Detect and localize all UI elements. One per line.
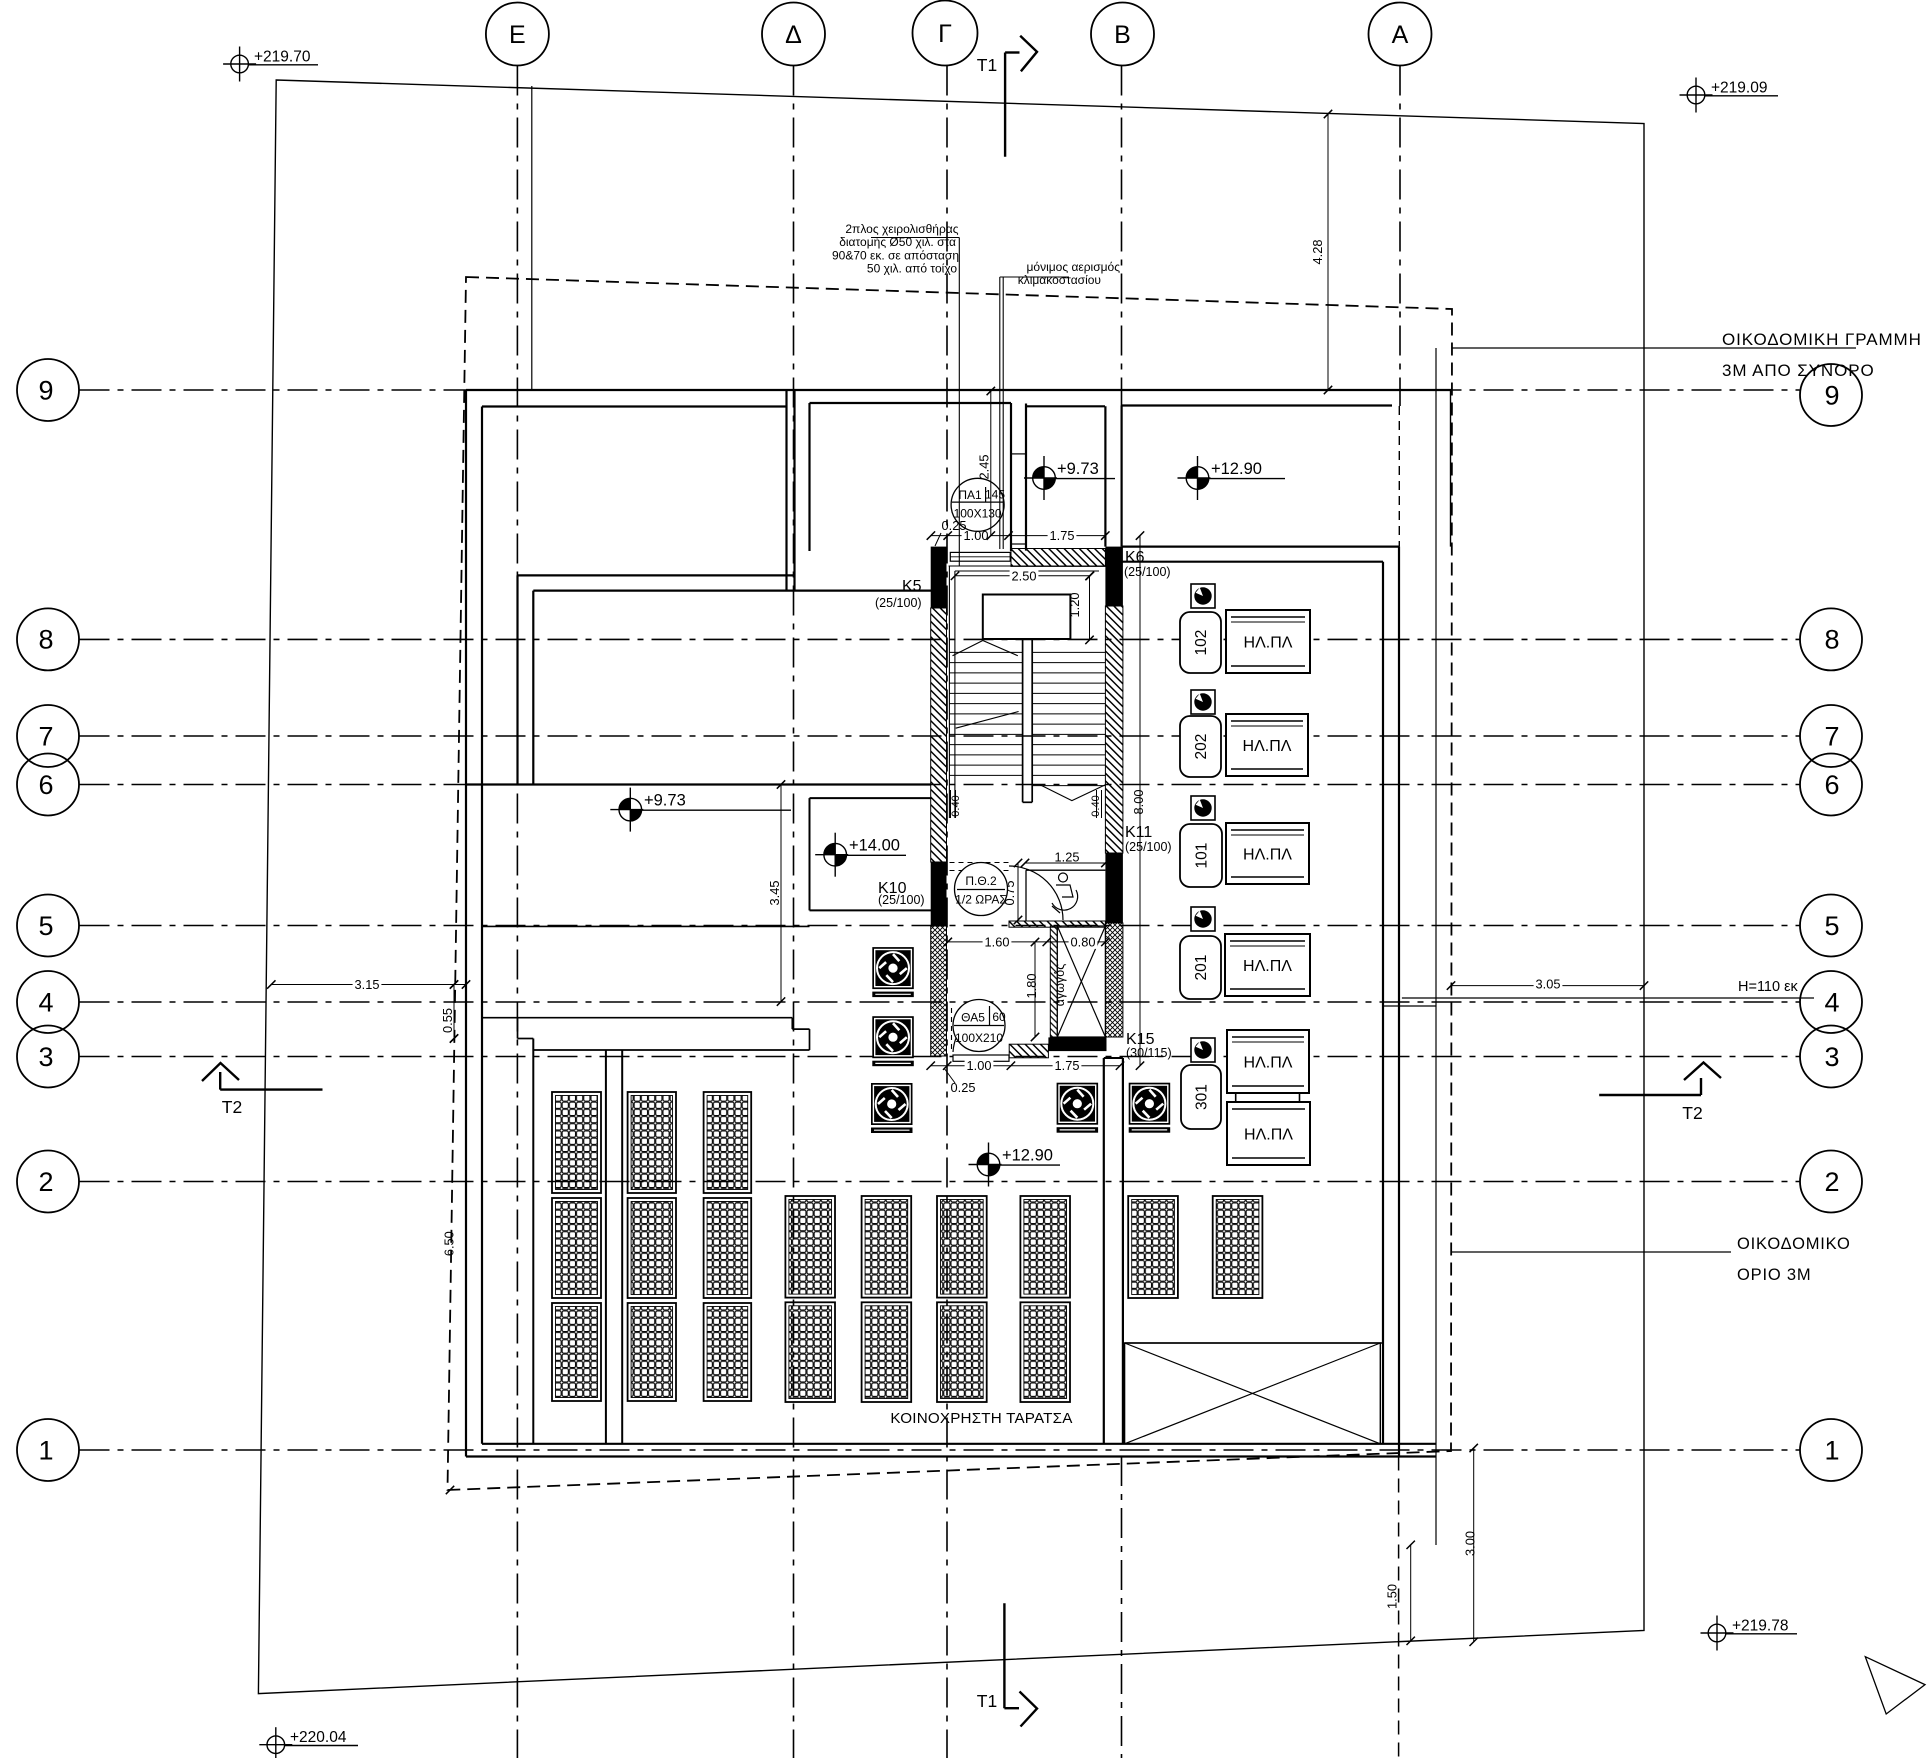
exhaust fan F1	[872, 947, 914, 997]
grid row 5	[80, 925, 1800, 927]
wall room B top line	[533, 589, 931, 591]
room A inner west	[808, 403, 810, 551]
roof solar panel P2	[628, 1092, 676, 1401]
svg-text:μόνιμος αερισμός: μόνιμος αερισμός	[1026, 260, 1120, 274]
section mark T1 bottom	[1004, 1603, 1037, 1726]
svg-text:3.15: 3.15	[355, 977, 380, 992]
dimension 3.45	[767, 780, 785, 1006]
svg-text:+219.09: +219.09	[1711, 80, 1767, 97]
svg-text:9: 9	[1824, 380, 1839, 410]
svg-text:Ε: Ε	[509, 21, 526, 49]
grid bubble 1 right	[1800, 1419, 1862, 1481]
exhaust fan F5	[1129, 1083, 1171, 1133]
step ledge west v	[517, 1018, 519, 1039]
spot level 12.90a	[1178, 456, 1286, 500]
leader building line	[1452, 347, 1856, 349]
stair bottom wall hatched	[1009, 1044, 1048, 1058]
dimension ticks 0.55/6.50 chain	[446, 980, 458, 1494]
exhaust fan F4	[1057, 1083, 1099, 1133]
boiler 201	[1180, 936, 1221, 999]
fence line east	[1435, 348, 1437, 1545]
door PA1 leaf	[950, 552, 1010, 561]
leader handrail note	[871, 238, 959, 567]
dimension 0.75	[1002, 859, 1022, 924]
svg-text:K11: K11	[1125, 824, 1152, 841]
wall north outer	[466, 389, 1452, 391]
terrace divider wall east line	[621, 1050, 623, 1444]
spot level 9.73a	[1024, 456, 1115, 500]
column K15 black bottom bar	[1048, 1037, 1106, 1051]
roof solar panel P7	[1020, 1196, 1070, 1402]
stair west wall hatched upper	[931, 608, 947, 862]
grid line A upper (vertical)	[1399, 66, 1401, 407]
svg-text:1.00: 1.00	[967, 1058, 992, 1073]
svg-text:101: 101	[1194, 843, 1211, 869]
grid bubble E	[486, 3, 549, 66]
roof edge right of B	[1450, 391, 1452, 547]
solar panel unit 201	[1225, 934, 1310, 996]
solar panel unit 102	[1226, 610, 1310, 673]
meter icon 202	[1191, 690, 1215, 714]
svg-text:ΟΙΚΟΔΟΜΙΚΟ: ΟΙΚΟΔΟΜΙΚΟ	[1737, 1235, 1851, 1253]
svg-text:100X210: 100X210	[955, 1031, 1003, 1045]
solar panel unit 301	[1227, 1030, 1309, 1093]
WC wall top	[1026, 869, 1105, 871]
wall row6	[466, 783, 931, 785]
svg-text:1.80: 1.80	[1024, 974, 1039, 999]
wall at Delta west face	[785, 391, 787, 591]
svg-text:0.40: 0.40	[950, 795, 962, 816]
svg-text:+12.90: +12.90	[1002, 1147, 1053, 1165]
dimension 3.05	[1447, 977, 1648, 992]
wall row5 segment	[482, 925, 810, 927]
dimension 8.00	[1131, 531, 1146, 1070]
roof solar panel P5	[862, 1196, 912, 1402]
wall west inner	[481, 407, 483, 1444]
terrace right wall west line	[1103, 1058, 1105, 1444]
svg-text:8.00: 8.00	[1131, 790, 1146, 815]
svg-text:3Μ ΑΠΟ ΣΥΝΟΡΟ: 3Μ ΑΠΟ ΣΥΝΟΡΟ	[1722, 361, 1875, 380]
svg-text:H=110 εκ: H=110 εκ	[1738, 979, 1799, 995]
grid bubble 6 left	[17, 754, 79, 816]
svg-text:Π.Θ.2: Π.Θ.2	[965, 874, 997, 888]
stair direction line	[956, 712, 1019, 729]
dimension 1.80	[1024, 938, 1039, 1041]
svg-text:1.20: 1.20	[1067, 593, 1082, 618]
note ventilation	[1018, 260, 1120, 287]
terrace divider wall west line	[605, 1050, 607, 1444]
leader H=110	[1402, 997, 1814, 999]
section mark T2 left	[202, 1063, 323, 1090]
dimension 3.15	[267, 977, 470, 992]
WC wall west	[1025, 870, 1027, 921]
svg-text:8: 8	[1824, 625, 1839, 655]
svg-text:ΗΛ.ΠΛ: ΗΛ.ΠΛ	[1243, 847, 1292, 864]
svg-text:100X130: 100X130	[954, 507, 1002, 521]
svg-text:90&70 εκ. σε απόσταση: 90&70 εκ. σε απόσταση	[832, 248, 959, 262]
short wall line east strip	[1383, 1005, 1436, 1007]
shaft wall hatched	[1050, 926, 1057, 1037]
grid bubble 1 left	[17, 1419, 79, 1481]
grid row 4	[80, 1001, 1800, 1003]
door PA1 leaf midline	[950, 556, 1010, 558]
svg-text:Δ: Δ	[785, 21, 802, 49]
svg-text:Α: Α	[1392, 21, 1409, 49]
grid line Delta (vertical)	[793, 66, 795, 1758]
stair top wall hatched band	[1011, 549, 1105, 567]
leader 0.25 bottom	[944, 1068, 955, 1083]
dimension 1.25	[1021, 850, 1110, 868]
svg-text:301: 301	[1194, 1084, 1211, 1110]
grid line B lower (vertical)	[1121, 1456, 1123, 1758]
stair east wall face upper	[1104, 406, 1106, 546]
column K5 (black)	[931, 547, 947, 608]
stairwell inner boundary top	[949, 566, 1104, 818]
room PA1 inner top	[1026, 405, 1105, 407]
step ledge h2	[792, 1028, 809, 1030]
column K11 (black)	[1105, 853, 1123, 923]
svg-text:ΗΛ.ΠΛ: ΗΛ.ΠΛ	[1244, 635, 1293, 652]
handrail end east pair	[1096, 790, 1098, 818]
svg-text:50 χιλ. από τοίχο: 50 χιλ. από τοίχο	[867, 262, 957, 276]
svg-text:102: 102	[1193, 630, 1210, 656]
svg-text:+12.90: +12.90	[1211, 460, 1262, 478]
leader 0.25 top	[935, 533, 941, 546]
svg-text:5: 5	[38, 911, 53, 941]
grid bubble 2 left	[17, 1151, 79, 1213]
window PA1 jamb west	[1010, 403, 1012, 551]
svg-text:(25/100): (25/100)	[1125, 840, 1172, 854]
svg-text:ΚΟΙΝΟΧΡΗΣΤΗ ΤΑΡΑΤΣΑ: ΚΟΙΝΟΧΡΗΣΤΗ ΤΑΡΑΤΣΑ	[890, 1410, 1073, 1427]
wall south outer	[466, 1455, 1436, 1457]
benchmark 219.78	[1701, 1616, 1798, 1651]
grid row 8	[80, 638, 1800, 640]
shaft box with X	[1057, 926, 1105, 1037]
svg-text:1.75: 1.75	[1050, 528, 1075, 543]
svg-text:K6: K6	[1125, 549, 1145, 566]
grid line E (vertical)	[516, 66, 518, 1758]
spot level 14.00	[815, 833, 906, 877]
svg-text:7: 7	[1824, 721, 1839, 751]
grid bubble 8 left	[17, 608, 79, 670]
spot level 12.90b	[969, 1143, 1061, 1187]
section mark T1 top	[1005, 36, 1037, 157]
wall east inner	[1382, 562, 1384, 1444]
dimension 3.00	[1463, 1444, 1478, 1646]
solar panel unit 301 lower	[1227, 1102, 1310, 1165]
stair void opening	[983, 595, 1071, 640]
svg-text:+219.78: +219.78	[1732, 1618, 1788, 1635]
exhaust fan F2	[872, 1016, 914, 1066]
grid bubble 7 left	[17, 705, 79, 767]
dimension 0.25/1.00/1.75 top	[927, 528, 1110, 543]
grid bubble 9 right	[1800, 364, 1862, 426]
svg-text:8: 8	[38, 625, 53, 655]
svg-text:1.60: 1.60	[985, 934, 1010, 949]
wheelchair symbol	[1052, 873, 1078, 913]
meter icon 201	[1191, 907, 1215, 931]
grid bubble Gamma	[913, 1, 978, 66]
setback building line 3m (dashed)	[448, 277, 1453, 1490]
spot level 9.73b	[610, 788, 791, 832]
svg-text:201: 201	[1193, 955, 1210, 981]
wall room A bottom upper line	[518, 574, 795, 576]
roof solar panel P8	[1128, 1196, 1178, 1298]
meter icon 301	[1191, 1038, 1215, 1062]
grid row 7	[80, 735, 1800, 737]
svg-text:3: 3	[1824, 1042, 1839, 1072]
grid line Gamma (vertical)	[946, 66, 948, 1758]
svg-text:0.40: 0.40	[1090, 795, 1102, 816]
dimension 1.60/0.80	[944, 934, 1110, 949]
WC bottom wall hatched strip	[1009, 921, 1105, 927]
svg-text:+14.00: +14.00	[849, 837, 900, 855]
grid row 6	[80, 784, 1800, 786]
svg-text:3: 3	[38, 1042, 53, 1072]
room K10 west	[809, 798, 811, 910]
svg-text:+9.73: +9.73	[1057, 460, 1099, 478]
svg-text:1.75: 1.75	[1055, 1058, 1080, 1073]
stair east wall hatched lower	[1105, 923, 1123, 1037]
svg-text:0.55: 0.55	[440, 1008, 455, 1033]
svg-text:1/2 ΩΡΑΣ: 1/2 ΩΡΑΣ	[955, 893, 1007, 907]
svg-text:K5: K5	[902, 578, 922, 595]
step ledge west h	[518, 1038, 534, 1040]
benchmark 219.70	[223, 47, 318, 82]
grid bubble 9 left	[17, 359, 79, 421]
svg-text:2.45: 2.45	[977, 455, 992, 480]
meter icon 102	[1191, 584, 1215, 608]
grid line B upper (vertical)	[1121, 66, 1123, 547]
wall south inner	[482, 1443, 1436, 1445]
svg-text:7: 7	[38, 721, 53, 751]
panel connector 301	[1236, 1093, 1300, 1102]
stair break line lower	[1040, 785, 1105, 801]
solar panel unit 101	[1226, 823, 1309, 884]
grid bubble 8 right	[1800, 608, 1862, 670]
svg-text:T1: T1	[977, 55, 997, 75]
room K10 top	[810, 797, 932, 799]
roof solar panel P9	[1213, 1196, 1263, 1298]
grid row 2	[80, 1181, 1800, 1183]
roof solar panel P1	[552, 1092, 601, 1401]
svg-text:T2: T2	[222, 1097, 242, 1117]
benchmark 219.09	[1680, 78, 1779, 113]
svg-text:3.45: 3.45	[767, 881, 782, 906]
leader building limit	[1452, 1251, 1731, 1253]
svg-text:2: 2	[38, 1167, 53, 1197]
boiler 101	[1180, 824, 1222, 887]
stair handrail west lines	[948, 566, 950, 818]
room K10 bottom	[810, 909, 932, 911]
wall stub east top inner	[1122, 561, 1383, 563]
svg-text:2πλος χειρολισθήρας: 2πλος χειρολισθήρας	[845, 222, 958, 236]
svg-text:6: 6	[38, 770, 53, 800]
svg-text:ΟΡΙΟ 3Μ: ΟΡΙΟ 3Μ	[1737, 1266, 1811, 1284]
grid row 9	[80, 389, 1800, 391]
svg-text:4.28: 4.28	[1310, 240, 1325, 265]
handrail end west pair	[951, 790, 1102, 818]
grid row 3	[80, 1056, 1800, 1058]
fire door tag circle	[955, 863, 1008, 916]
crossed box opening	[1125, 1343, 1383, 1444]
svg-text:4: 4	[1824, 987, 1839, 1017]
wall room B west	[532, 591, 534, 785]
svg-text:ΗΛ.ΠΛ: ΗΛ.ΠΛ	[1244, 1127, 1293, 1144]
grid row 1	[80, 1449, 1800, 1451]
solar panel unit 202	[1226, 714, 1308, 776]
dimension 2.50	[951, 568, 1094, 583]
svg-text:T2: T2	[1682, 1103, 1702, 1123]
svg-text:ΠΑ1: ΠΑ1	[958, 488, 982, 502]
svg-text:5: 5	[1824, 911, 1839, 941]
svg-text:6.50: 6.50	[442, 1231, 457, 1256]
svg-text:1.50: 1.50	[1385, 1584, 1400, 1609]
note handrail	[832, 222, 959, 276]
wall north inner right	[1122, 404, 1392, 406]
door THA5 swing arc	[953, 1009, 997, 1052]
svg-text:+9.73: +9.73	[644, 792, 686, 810]
svg-text:202: 202	[1193, 734, 1210, 760]
svg-text:3.00: 3.00	[1463, 1531, 1478, 1556]
grid bubble B	[1091, 3, 1154, 66]
svg-text:ΗΛ.ΠΛ: ΗΛ.ΠΛ	[1244, 1055, 1293, 1072]
svg-text:αγωγός: αγωγός	[1053, 964, 1067, 1006]
stair central divider	[1023, 639, 1033, 802]
wall at Delta east face	[793, 391, 795, 591]
grid line A dashed lower extension	[1398, 1457, 1400, 1758]
svg-text:3.05: 3.05	[1536, 977, 1561, 992]
svg-text:ΗΛ.ΠΛ: ΗΛ.ΠΛ	[1243, 738, 1292, 755]
door THA5 leaf	[953, 1055, 1009, 1061]
stair treads	[949, 652, 1105, 785]
grid bubble A	[1369, 3, 1432, 66]
svg-text:4: 4	[38, 987, 53, 1017]
svg-text:6: 6	[1824, 770, 1839, 800]
door THA5 dashed opening	[951, 1008, 953, 1052]
site boundary parcel	[258, 80, 1644, 1694]
wall north inner left	[482, 405, 787, 407]
svg-text:1.25: 1.25	[1055, 850, 1080, 865]
boiler 301	[1181, 1065, 1221, 1129]
stair east wall outer face upper	[1120, 406, 1122, 547]
svg-text:9: 9	[38, 375, 53, 405]
grid bubble 2 right	[1800, 1151, 1862, 1213]
svg-text:+220.04: +220.04	[290, 1729, 347, 1746]
svg-text:κλιμακοστασίου: κλιμακοστασίου	[1018, 273, 1101, 287]
wall at E below	[516, 575, 518, 784]
svg-text:2: 2	[1824, 1167, 1839, 1197]
grid bubble Delta	[762, 3, 825, 66]
roof solar panel P3	[704, 1092, 752, 1401]
boiler 202	[1180, 716, 1221, 777]
exhaust fan F3	[871, 1083, 913, 1133]
door tag THA5 circle	[953, 1000, 1006, 1052]
dimension 4.28	[1310, 110, 1332, 394]
svg-text:2.50: 2.50	[1012, 568, 1037, 583]
dimension 2.45	[977, 387, 996, 540]
terrace west edge	[532, 1039, 534, 1444]
grid bubble 4 left	[17, 971, 79, 1033]
fire door dashed opening	[950, 863, 1010, 871]
grid bubble 4 right	[1800, 971, 1862, 1033]
svg-text:Γ: Γ	[938, 20, 952, 48]
neighbour wall line along E	[531, 86, 533, 391]
step ledge line h1	[482, 1017, 792, 1019]
grid bubble 6 right	[1800, 754, 1862, 816]
step ledge v2	[809, 1029, 811, 1050]
section mark T2 right	[1599, 1063, 1721, 1096]
terrace top edge	[533, 1049, 809, 1051]
window PA1 sill marks	[1011, 453, 1026, 455]
roof solar panel P4	[785, 1196, 835, 1402]
dimension 1.50	[1385, 1541, 1415, 1645]
door tag PA1 circle	[951, 478, 1005, 531]
terrace right wall east line	[1122, 1058, 1124, 1444]
svg-text:T1: T1	[977, 1691, 997, 1711]
dimension 0.55	[440, 980, 458, 1042]
wall west outer	[465, 390, 467, 1457]
svg-text:Β: Β	[1114, 21, 1131, 49]
stair west wall hatched lower	[931, 926, 947, 1056]
svg-text:+219.70: +219.70	[254, 49, 311, 66]
wall stub east top outer	[1122, 545, 1399, 547]
stair break line upper	[953, 641, 1018, 656]
grid bubble 5 right	[1800, 895, 1862, 957]
meter icon 101	[1191, 796, 1215, 820]
svg-text:1: 1	[38, 1435, 53, 1465]
wall east outer	[1398, 547, 1400, 1457]
svg-text:ΟΙΚΟΔΟΜΙΚΗ ΓΡΑΜΜΗ: ΟΙΚΟΔΟΜΙΚΗ ΓΡΑΜΜΗ	[1722, 330, 1922, 349]
grid bubble 5 left	[17, 895, 79, 957]
terrace right wall cap	[1104, 1057, 1123, 1059]
stair east wall hatched upper	[1105, 606, 1123, 853]
window PA1 jamb east	[1025, 404, 1027, 551]
column K6 (black)	[1105, 547, 1123, 606]
svg-text:(30/115): (30/115)	[1126, 1046, 1172, 1060]
svg-text:145: 145	[985, 488, 1005, 502]
benchmark 220.04	[259, 1727, 358, 1758]
svg-text:1: 1	[1824, 1435, 1839, 1465]
grid bubble 3 left	[17, 1026, 79, 1088]
column K10 (black)	[931, 862, 947, 926]
grid line A dashed middle segment	[1398, 406, 1400, 547]
dimension 1.20	[1067, 572, 1094, 644]
svg-text:60: 60	[992, 1010, 1006, 1024]
svg-text:(25/100): (25/100)	[1124, 565, 1171, 579]
svg-text:(25/100): (25/100)	[878, 893, 925, 907]
leader ventilation note	[1000, 277, 1069, 549]
roof solar panel P6	[937, 1196, 987, 1402]
room A inner top	[810, 402, 1012, 404]
step ledge v1	[791, 1018, 793, 1029]
svg-text:(25/100): (25/100)	[875, 596, 922, 610]
grid bubble 7 right	[1800, 705, 1862, 767]
svg-text:0.80: 0.80	[1071, 934, 1096, 949]
svg-text:ΗΛ.ΠΛ: ΗΛ.ΠΛ	[1243, 958, 1292, 975]
grid bubble 3 right	[1800, 1026, 1862, 1088]
north arrow	[1865, 1657, 1925, 1714]
boiler 102	[1180, 612, 1221, 673]
dimension 0.25/1.00/1.75 bottom	[927, 1058, 1125, 1073]
svg-text:ΘΑ5: ΘΑ5	[961, 1011, 985, 1025]
fire door swing arc	[1009, 866, 1063, 920]
